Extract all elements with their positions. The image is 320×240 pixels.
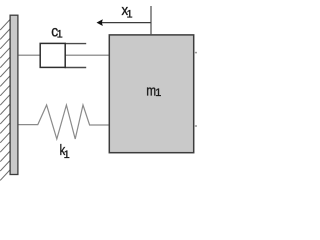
right edge rod stub bottom (cropped) (194, 125, 197, 127)
reference vertical line (150, 6, 152, 35)
wall bar (10, 15, 18, 174)
damper cylinder extension top line (65, 43, 87, 45)
wall hatching (0, 20, 10, 181)
svg-text:1: 1 (155, 87, 161, 99)
arrow x1 line (102, 22, 152, 24)
arrow x1 head (97, 19, 103, 26)
damper rod (wall to mass) (19, 54, 110, 56)
damper piston box c1 (40, 43, 65, 67)
right edge rod stub top (cropped) (194, 52, 197, 54)
svg-text:1: 1 (64, 149, 70, 161)
svg-text:1: 1 (57, 28, 63, 40)
spring k1 (wall to mass) (19, 105, 110, 139)
svg-text:1: 1 (127, 8, 133, 20)
mass block m1 (109, 35, 193, 153)
damper cylinder extension bottom line (65, 67, 87, 69)
